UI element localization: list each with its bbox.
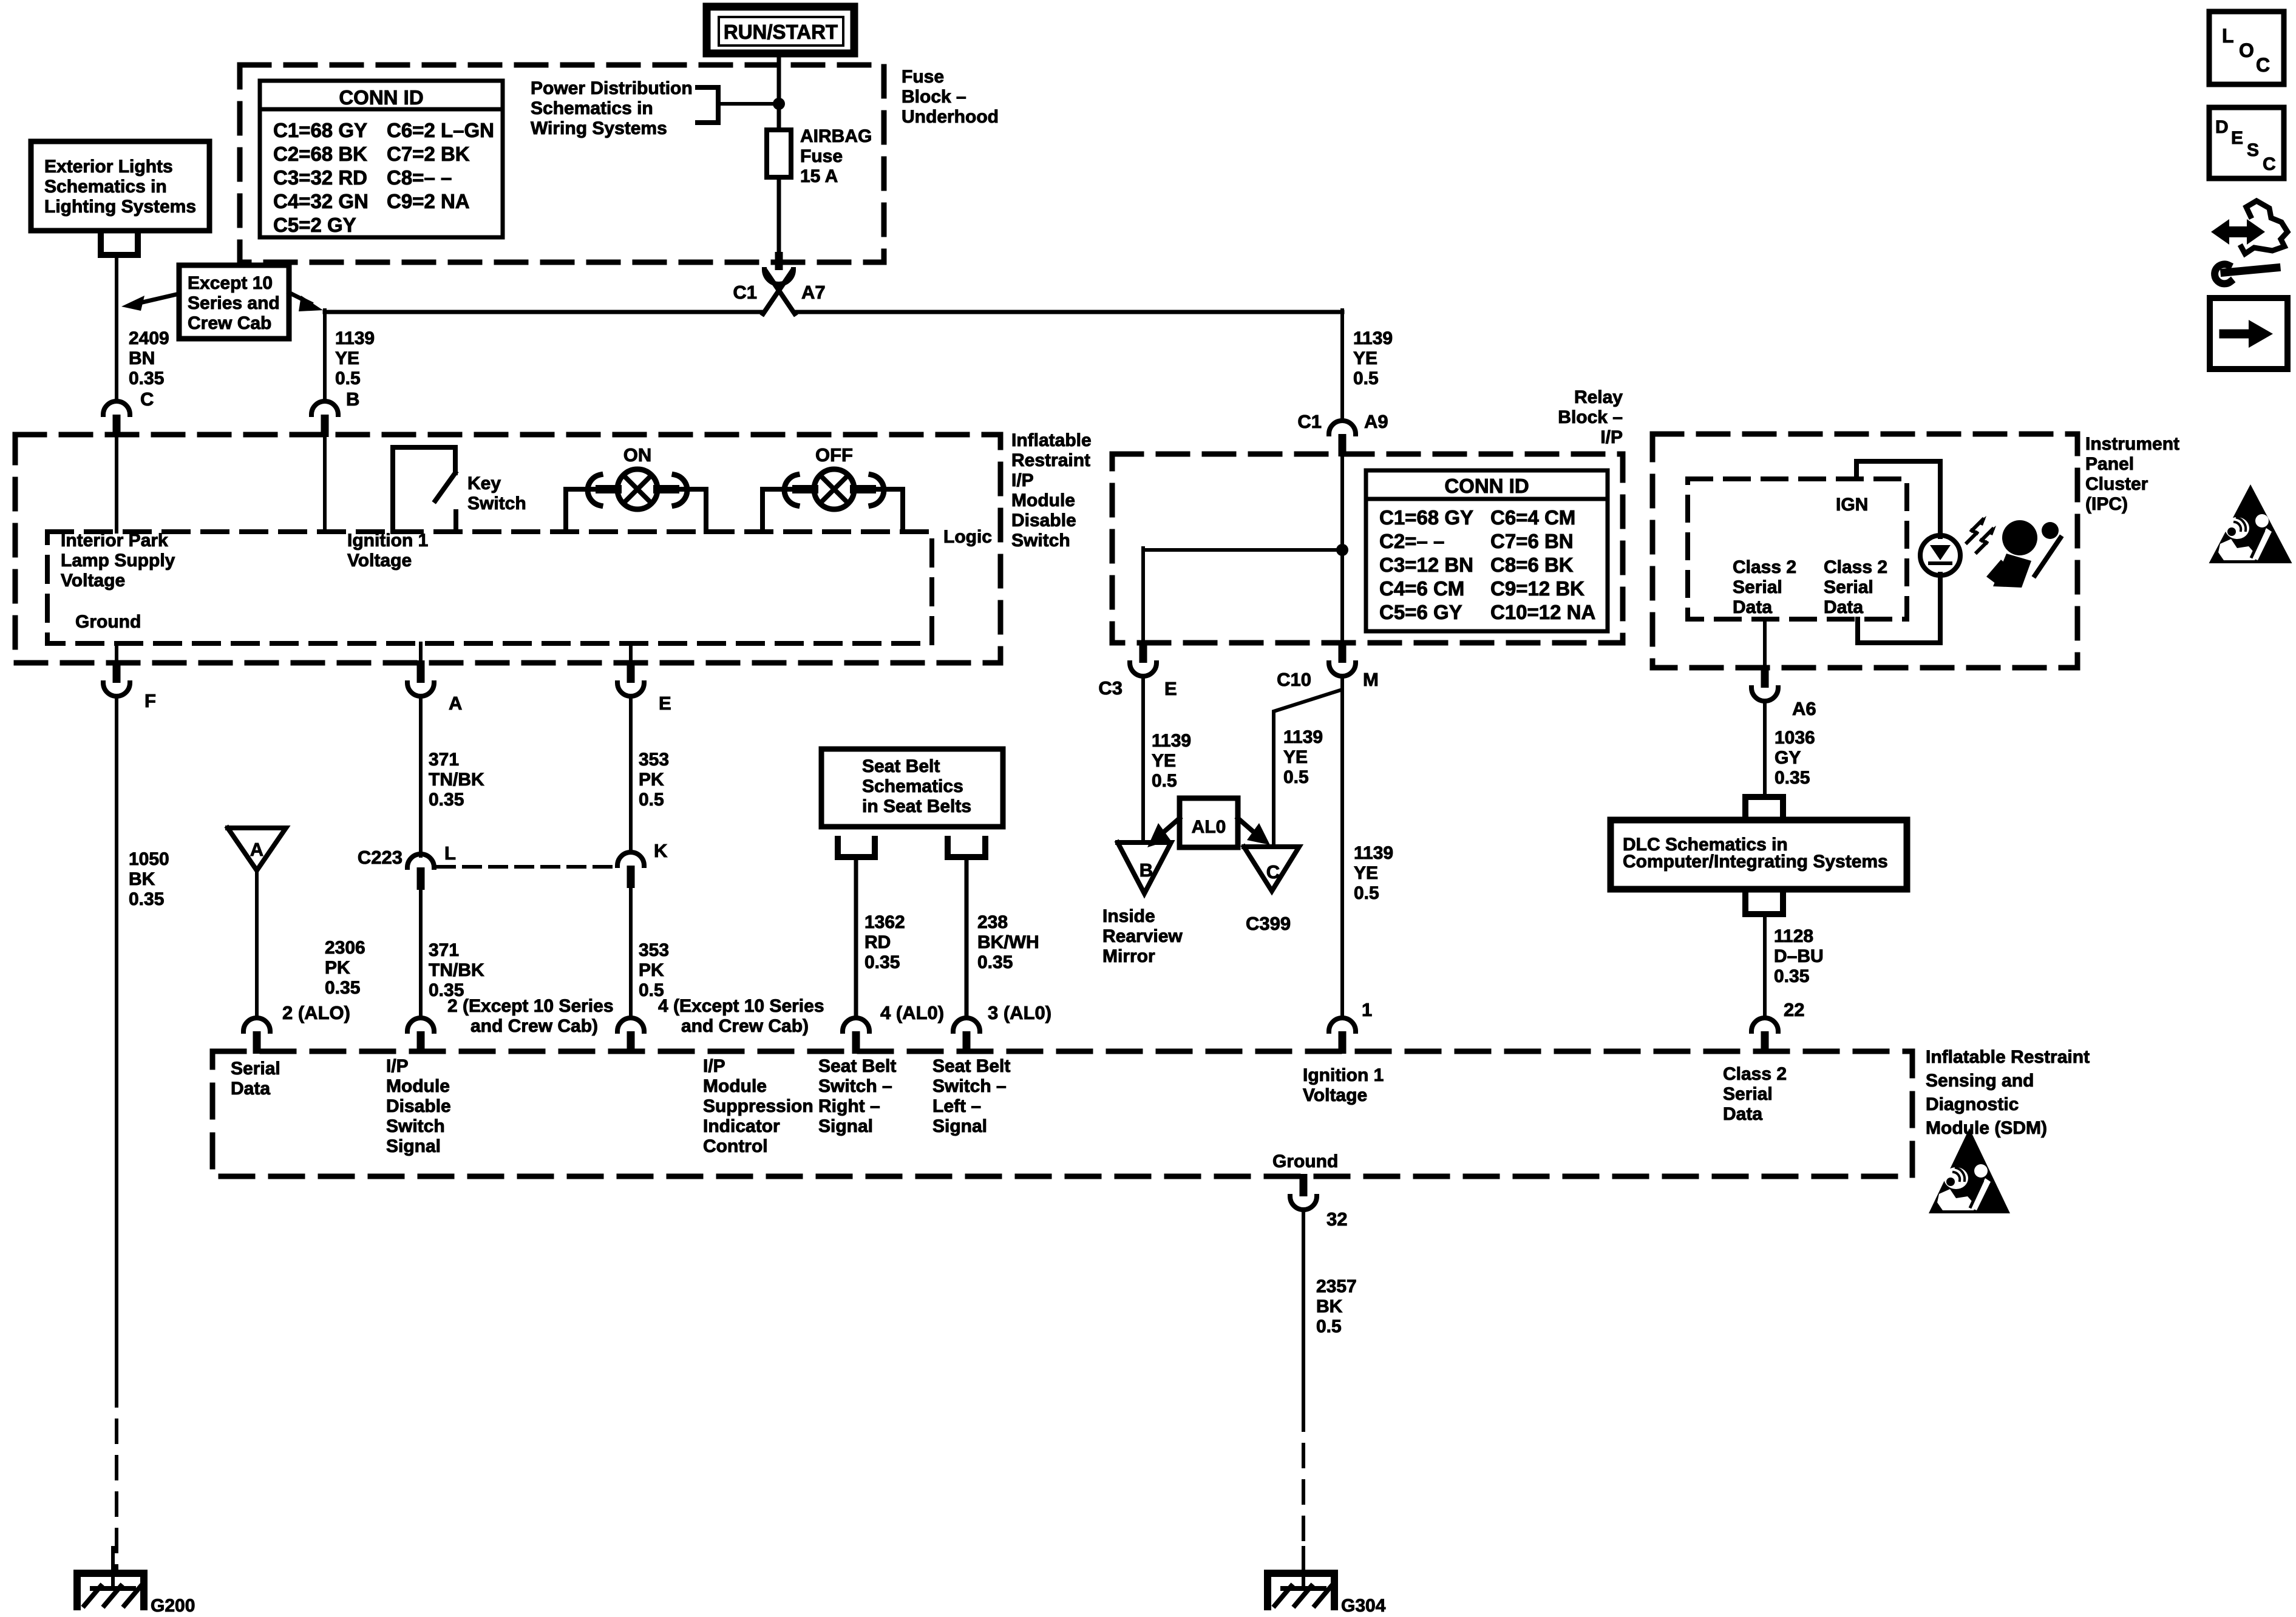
wire 2357 BK solid <box>1302 1210 1305 1408</box>
svg-text:Diagnostic: Diagnostic <box>1926 1094 2019 1114</box>
label 1139 YE 0.5 (A9 wire) <box>1353 328 1393 388</box>
svg-text:D: D <box>2215 117 2229 137</box>
label IGN <box>1836 495 1868 515</box>
svg-text:Switch –: Switch – <box>932 1076 1007 1096</box>
svg-text:C3: C3 <box>1098 677 1123 699</box>
label 32 <box>1326 1209 1347 1230</box>
svg-text:C5=6 GY: C5=6 GY <box>1379 601 1462 623</box>
label Relay Block - I/P <box>1558 387 1623 447</box>
SRS caution triangle (SDM) <box>1929 1128 2010 1213</box>
svg-text:C: C <box>140 388 154 410</box>
svg-text:0.35: 0.35 <box>429 790 464 810</box>
svg-text:TN/BK: TN/BK <box>429 770 484 790</box>
svg-text:OFF: OFF <box>815 444 853 466</box>
svg-text:Panel: Panel <box>2085 454 2134 474</box>
bracket above DLC <box>1745 797 1783 815</box>
fuse block - underhood dashed box <box>240 65 884 262</box>
svg-text:AL0: AL0 <box>1192 817 1226 837</box>
svg-text:22: 22 <box>1784 999 1804 1020</box>
svg-text:TN/BK: TN/BK <box>429 960 484 980</box>
svg-text:1362: 1362 <box>864 912 905 932</box>
svg-text:Seat Belt: Seat Belt <box>932 1056 1010 1076</box>
label 2 (ALO) <box>282 1002 350 1023</box>
svg-text:2306: 2306 <box>325 938 365 958</box>
svg-text:Ignition 1: Ignition 1 <box>1303 1065 1384 1085</box>
inflatable restraint I/P module disable switch dashed box <box>15 435 1000 663</box>
svg-text:YE: YE <box>1283 747 1308 767</box>
connector B <box>311 401 338 437</box>
label E <box>659 693 671 714</box>
svg-text:0.35: 0.35 <box>864 952 900 972</box>
bracket seat belt right switch <box>838 839 875 857</box>
label A <box>449 693 462 714</box>
svg-text:238: 238 <box>977 912 1008 932</box>
svg-text:GY: GY <box>1775 748 1801 768</box>
label 371 TN/BK 0.35 (lower) <box>429 940 484 1000</box>
svg-text:I/P: I/P <box>703 1056 725 1076</box>
svg-text:Rearview: Rearview <box>1102 926 1183 946</box>
wire fuse to connector C1/A7 <box>777 177 781 257</box>
wire C3/E to triangle B <box>1141 677 1145 842</box>
wire K to SDM pin 4 <box>629 888 633 1016</box>
label 2 (Except 10 Series and Crew Cab) <box>447 996 614 1036</box>
svg-text:1139: 1139 <box>1283 727 1323 747</box>
svg-text:C7=2 BK: C7=2 BK <box>387 143 470 165</box>
svg-text:Inflatable Restraint: Inflatable Restraint <box>1926 1047 2090 1067</box>
svg-text:Relay: Relay <box>1574 387 1623 407</box>
label Key Switch <box>467 473 526 514</box>
svg-text:C399: C399 <box>1246 913 1291 934</box>
svg-text:C: C <box>1266 861 1280 883</box>
connector 4 except10 <box>617 1018 644 1054</box>
inflatable restraint sensing and diagnostic module dashed box <box>212 1051 1912 1176</box>
relay block I/P dashed box <box>1112 454 1623 643</box>
svg-text:2 (Except 10 Series: 2 (Except 10 Series <box>447 996 614 1016</box>
DLC schematics box <box>1611 820 1907 889</box>
svg-text:YE: YE <box>1354 863 1378 883</box>
svg-text:YE: YE <box>1152 751 1176 771</box>
svg-text:C10: C10 <box>1277 669 1311 690</box>
svg-text:Series and: Series and <box>188 293 280 313</box>
wire M to SDM pin 1 <box>1340 676 1344 1016</box>
svg-text:C1: C1 <box>1297 411 1322 432</box>
svg-text:Indicator: Indicator <box>703 1116 780 1136</box>
instrument panel cluster dashed box <box>1652 434 2077 668</box>
seat belt schematics box <box>821 749 1003 827</box>
svg-text:0.5: 0.5 <box>1283 767 1309 787</box>
LOC icon box <box>2209 12 2284 84</box>
svg-text:K: K <box>654 840 668 861</box>
svg-text:Instrument: Instrument <box>2085 434 2179 454</box>
svg-text:F: F <box>144 690 156 711</box>
wire 1050 BK dashed <box>115 1384 118 1573</box>
svg-text:RUN/START: RUN/START <box>724 21 838 43</box>
svg-text:O: O <box>2239 39 2254 61</box>
label Seat Belt Switch Left Signal <box>932 1056 1010 1136</box>
label Instrument Panel Cluster (IPC) <box>2085 434 2179 514</box>
svg-text:353: 353 <box>639 750 669 770</box>
label I/P Module Disable Switch Signal <box>386 1056 451 1156</box>
svg-text:Underhood: Underhood <box>902 107 999 127</box>
svg-text:BN: BN <box>129 348 155 368</box>
svg-text:0.35: 0.35 <box>977 952 1013 972</box>
connector C3/E <box>1130 640 1156 676</box>
wire serial data <box>255 870 259 1016</box>
svg-text:PK: PK <box>639 770 664 790</box>
svg-text:Crew Cab: Crew Cab <box>188 313 271 333</box>
svg-text:C6=2 L–GN: C6=2 L–GN <box>387 119 494 141</box>
wire 2357 BK dashed <box>1302 1408 1305 1573</box>
svg-text:Cluster: Cluster <box>2085 474 2148 494</box>
connector C223 L <box>407 854 434 890</box>
svg-text:Schematics: Schematics <box>862 776 963 796</box>
label C223 <box>358 847 402 868</box>
label 1 <box>1362 999 1372 1020</box>
svg-text:C8=6 BK: C8=6 BK <box>1490 554 1574 576</box>
label 1036 GY 0.35 <box>1775 728 1815 788</box>
label A9 <box>1364 411 1388 432</box>
connector C10/M <box>1329 640 1356 676</box>
svg-text:C8=– –: C8=– – <box>387 166 452 189</box>
wire 238 BK/WH <box>965 857 969 1016</box>
svg-text:Exterior Lights: Exterior Lights <box>44 157 173 177</box>
svg-text:C1=68 GY: C1=68 GY <box>273 119 367 141</box>
svg-text:0.5: 0.5 <box>1353 368 1379 388</box>
svg-text:Data: Data <box>1824 597 1863 617</box>
svg-text:Module (SDM): Module (SDM) <box>1926 1118 2047 1138</box>
connector C1/A7 pass-through <box>763 252 795 314</box>
svg-text:IGN: IGN <box>1836 495 1868 515</box>
label Inside Rearview Mirror <box>1102 906 1183 966</box>
wire A6 down <box>1763 701 1767 797</box>
label AIRBAG Fuse 15 A <box>800 126 872 186</box>
wire A inside <box>419 643 423 663</box>
svg-text:0.5: 0.5 <box>1354 883 1379 903</box>
connector 1 <box>1329 1018 1356 1054</box>
svg-text:Voltage: Voltage <box>61 571 125 591</box>
airbag indicator LED <box>1920 535 1960 575</box>
svg-text:Suppression: Suppression <box>703 1096 813 1116</box>
label Power Distribution Schematics in Wiring Systems <box>531 78 693 138</box>
except 10 series and crew cab box <box>179 265 289 339</box>
wire B into logic box <box>323 437 327 532</box>
svg-text:CONN ID: CONN ID <box>339 86 423 109</box>
label Class 2 Serial Data (SDM) <box>1723 1064 1787 1124</box>
svg-text:Serial: Serial <box>1733 577 1782 597</box>
svg-text:in Seat Belts: in Seat Belts <box>862 796 971 816</box>
arrow AL0 to C <box>1238 818 1270 845</box>
label C1 (fuse side) <box>733 282 757 303</box>
svg-text:B: B <box>1140 859 1153 881</box>
label 22 <box>1784 999 1804 1020</box>
connector 4 AL0 <box>843 1018 869 1054</box>
AL0 box <box>1180 798 1238 847</box>
svg-text:C3=32 RD: C3=32 RD <box>273 166 367 189</box>
svg-text:(IPC): (IPC) <box>2085 494 2128 514</box>
label Ground (logic box) <box>75 612 141 632</box>
label K <box>654 840 668 861</box>
label Serial Data (SDM) <box>231 1059 280 1099</box>
label 1139 YE 0.5 (C399 wire) <box>1283 727 1323 787</box>
label 2306 PK 0.35 <box>325 938 365 998</box>
label A6 <box>1792 698 1816 719</box>
svg-text:Seat Belt: Seat Belt <box>862 756 940 776</box>
svg-text:4 (Except 10 Series: 4 (Except 10 Series <box>658 996 824 1016</box>
exterior lights reference box <box>31 141 209 231</box>
label B <box>346 388 359 410</box>
svg-text:Module: Module <box>1011 490 1075 510</box>
indicator lamp OFF <box>763 469 903 532</box>
svg-text:2357: 2357 <box>1316 1276 1357 1297</box>
label 1050 BK 0.35 <box>129 849 169 909</box>
arrow icon box <box>2210 298 2288 369</box>
svg-text:0.5: 0.5 <box>1152 771 1177 791</box>
svg-text:C4=6 CM: C4=6 CM <box>1379 577 1464 600</box>
label 2357 BK 0.5 <box>1316 1276 1357 1337</box>
svg-text:and Crew Cab): and Crew Cab) <box>681 1016 809 1036</box>
label OFF <box>815 444 853 466</box>
svg-text:C9=2 NA: C9=2 NA <box>387 190 470 212</box>
label E (relay) <box>1164 678 1177 699</box>
wire branch to C3/E <box>1143 548 1342 640</box>
label 238 BK/WH 0.35 <box>977 912 1039 972</box>
RUN/START hot-at-all-times bus tag <box>707 7 854 53</box>
label Inflatable Restraint I/P Module Disable Switch <box>1011 430 1092 551</box>
bracket below exterior lights box <box>101 236 138 255</box>
svg-text:Module: Module <box>703 1076 767 1096</box>
svg-text:AIRBAG: AIRBAG <box>800 126 872 146</box>
svg-text:C10=12 NA: C10=12 NA <box>1490 601 1595 623</box>
svg-text:C4=32 GN: C4=32 GN <box>273 190 369 212</box>
svg-text:Switch: Switch <box>467 493 526 514</box>
svg-text:1139: 1139 <box>335 328 375 348</box>
wire E inside <box>629 643 633 663</box>
svg-text:C2=68 BK: C2=68 BK <box>273 143 367 165</box>
svg-text:YE: YE <box>1353 348 1377 368</box>
indicator lamp ON <box>566 469 706 532</box>
svg-text:C223: C223 <box>358 847 402 868</box>
svg-text:0.5: 0.5 <box>335 368 361 388</box>
triangle connector C (C399) <box>1244 847 1299 891</box>
IGN circuit loop <box>1856 461 1940 643</box>
wire 1050 BK solid <box>115 697 118 1384</box>
svg-text:Lighting Systems: Lighting Systems <box>44 197 196 217</box>
svg-text:Ignition 1: Ignition 1 <box>347 531 428 551</box>
svg-text:L: L <box>2222 25 2234 47</box>
svg-text:Fuse: Fuse <box>902 67 944 87</box>
svg-text:B: B <box>346 388 359 410</box>
svg-text:L: L <box>444 842 456 864</box>
svg-text:Module: Module <box>386 1076 450 1096</box>
label ON <box>623 444 652 466</box>
svg-text:Key: Key <box>467 473 501 493</box>
svg-text:A9: A9 <box>1364 411 1388 432</box>
svg-text:C2=– –: C2=– – <box>1379 530 1444 552</box>
svg-text:Block –: Block – <box>1558 407 1623 427</box>
label 3 (AL0) <box>988 1002 1051 1023</box>
svg-text:M: M <box>1363 669 1379 690</box>
svg-text:1: 1 <box>1362 999 1372 1020</box>
label 371 TN/BK 0.35 (upper) <box>429 750 484 810</box>
fuse AIRBAG 15A <box>767 130 791 177</box>
svg-text:Seat Belt: Seat Belt <box>818 1056 896 1076</box>
SRS caution triangle (IPC) <box>2209 484 2292 563</box>
svg-text:Mirror: Mirror <box>1102 946 1155 966</box>
label 1139 YE 0.5 (B wire) <box>335 328 375 388</box>
svg-text:C: C <box>2263 154 2276 174</box>
svg-text:32: 32 <box>1326 1209 1347 1230</box>
label 353 PK 0.5 (upper) <box>639 750 669 810</box>
connector C1/A9 <box>1329 421 1356 456</box>
label C1 (relay) <box>1297 411 1322 432</box>
tools icon <box>2211 201 2288 283</box>
label C10 <box>1277 669 1311 690</box>
bracket seat belt left switch <box>948 839 985 857</box>
svg-text:C7=6 BN: C7=6 BN <box>1490 530 1574 552</box>
label Seat Belt Switch Right Signal <box>818 1056 896 1136</box>
svg-text:0.35: 0.35 <box>129 368 164 388</box>
connector A6 <box>1751 665 1778 701</box>
svg-text:A: A <box>250 839 263 860</box>
wire class2 inside IPC <box>1763 619 1767 665</box>
svg-text:371: 371 <box>429 750 459 770</box>
label F <box>144 690 156 711</box>
label Class 2 Serial Data (right) <box>1824 557 1887 617</box>
svg-text:ON: ON <box>623 444 652 466</box>
svg-text:Lamp Supply: Lamp Supply <box>61 551 175 571</box>
svg-text:G200: G200 <box>151 1596 195 1616</box>
svg-text:Signal: Signal <box>386 1136 441 1156</box>
svg-text:C3=12 BN: C3=12 BN <box>1379 554 1473 576</box>
CONN ID table (fuse block) <box>260 81 503 237</box>
svg-text:A7: A7 <box>801 282 826 303</box>
svg-text:I/P: I/P <box>1011 470 1034 490</box>
arrow to right wire <box>289 293 323 311</box>
svg-text:I/P: I/P <box>386 1056 409 1076</box>
svg-text:BK/WH: BK/WH <box>977 932 1039 952</box>
label Logic <box>943 527 992 547</box>
svg-text:Data: Data <box>1733 597 1772 617</box>
label C399 <box>1246 913 1291 934</box>
svg-text:0.35: 0.35 <box>1775 768 1810 788</box>
svg-text:BK: BK <box>129 869 155 889</box>
arrow to left wire <box>121 294 179 311</box>
svg-text:E: E <box>1164 678 1177 699</box>
svg-text:PK: PK <box>325 958 350 978</box>
svg-text:PK: PK <box>639 960 664 980</box>
svg-text:15 A: 15 A <box>800 166 838 186</box>
wire A to C223 <box>419 697 423 856</box>
svg-text:A6: A6 <box>1792 698 1816 719</box>
svg-text:1128: 1128 <box>1774 926 1813 946</box>
label 1139 YE 0.5 (mirror wire) <box>1152 731 1191 791</box>
svg-text:1050: 1050 <box>129 849 169 869</box>
label 1128 D-BU 0.35 <box>1774 926 1824 986</box>
label M <box>1363 669 1379 690</box>
svg-text:1036: 1036 <box>1775 728 1815 748</box>
label 353 PK 0.5 (lower) <box>639 940 669 1000</box>
label Ground (SDM) <box>1272 1151 1338 1171</box>
IPC inner dashed box <box>1688 479 1907 619</box>
label Interior Park Lamp Supply Voltage <box>61 531 175 591</box>
svg-text:Restraint: Restraint <box>1011 450 1090 470</box>
svg-text:D–BU: D–BU <box>1774 946 1824 966</box>
svg-text:YE: YE <box>335 348 359 368</box>
wire exterior lights to connector C <box>115 255 118 399</box>
svg-text:C: C <box>2256 54 2270 76</box>
svg-text:G304: G304 <box>1341 1596 1386 1616</box>
bracket below DLC <box>1745 889 1783 914</box>
junction dot (relay) <box>1336 544 1348 556</box>
svg-text:C9=12 BK: C9=12 BK <box>1490 577 1584 600</box>
wire 1128 D-BU <box>1763 914 1767 1016</box>
svg-text:371: 371 <box>429 940 459 960</box>
dashed link C223 L-K <box>438 865 614 869</box>
svg-text:Computer/Integrating Systems: Computer/Integrating Systems <box>1623 852 1888 872</box>
svg-text:C6=4 CM: C6=4 CM <box>1490 506 1575 529</box>
svg-text:Power Distribution: Power Distribution <box>531 78 693 98</box>
connector A (logic exit) <box>407 660 434 696</box>
ground G200 <box>77 1548 195 1616</box>
label C <box>140 388 154 410</box>
wire L to SDM pin 2 <box>419 890 423 1016</box>
svg-text:C1: C1 <box>733 282 757 303</box>
svg-text:Inflatable: Inflatable <box>1011 430 1092 450</box>
label Ignition 1 Voltage (SDM) <box>1303 1065 1384 1105</box>
connector F <box>103 660 130 696</box>
svg-text:Class 2: Class 2 <box>1824 557 1887 577</box>
label Inflatable Restraint Sensing and Diagnostic Module (SDM) <box>1926 1047 2090 1138</box>
connector 2 except10 <box>407 1018 434 1054</box>
svg-text:Wiring Systems: Wiring Systems <box>531 118 667 138</box>
connector 2 ALO <box>243 1018 270 1054</box>
svg-text:C1=68 GY: C1=68 GY <box>1379 506 1473 529</box>
svg-text:Block –: Block – <box>902 87 966 107</box>
label 1139 YE 0.5 (ignition 1) <box>1354 843 1393 903</box>
svg-text:and Crew Cab): and Crew Cab) <box>470 1016 598 1036</box>
svg-text:0.35: 0.35 <box>1774 966 1809 986</box>
connector C223 K <box>617 852 644 888</box>
svg-text:S: S <box>2247 140 2259 160</box>
wire ignition bus left <box>325 310 764 399</box>
logic inner dashed box <box>47 532 932 643</box>
label 4 (Except 10 Series and Crew Cab) <box>658 996 824 1036</box>
svg-text:2409: 2409 <box>129 328 169 348</box>
svg-text:Disable: Disable <box>386 1096 451 1116</box>
svg-text:Schematics in: Schematics in <box>44 177 167 197</box>
wire ground inside logic <box>115 643 118 663</box>
wire E to C223 K <box>629 697 633 852</box>
label Ignition 1 Voltage (logic box) <box>347 531 428 571</box>
svg-text:A: A <box>449 693 462 714</box>
label L <box>444 842 456 864</box>
svg-text:RD: RD <box>864 932 891 952</box>
svg-text:Interior Park: Interior Park <box>61 531 168 551</box>
svg-text:0.35: 0.35 <box>325 978 360 998</box>
CONN ID table (relay block) <box>1366 470 1608 631</box>
wire RUN/START to fuse block <box>777 53 781 130</box>
wire A9 to junction <box>1340 456 1344 640</box>
svg-text:1139: 1139 <box>1152 731 1191 751</box>
svg-text:Ground: Ground <box>1272 1151 1338 1171</box>
svg-text:Left –: Left – <box>932 1096 981 1116</box>
label 4 (AL0) <box>880 1002 944 1023</box>
svg-text:Switch: Switch <box>1011 531 1070 551</box>
svg-text:0.5: 0.5 <box>1316 1317 1342 1337</box>
svg-text:Serial: Serial <box>1723 1084 1773 1104</box>
svg-text:Serial: Serial <box>1824 577 1873 597</box>
svg-text:Serial: Serial <box>231 1059 280 1079</box>
